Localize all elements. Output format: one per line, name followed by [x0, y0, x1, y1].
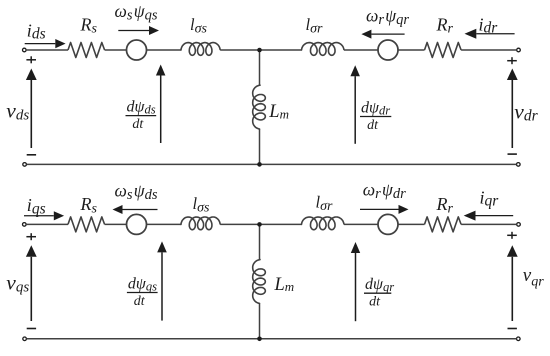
resistor Rr [425, 43, 462, 58]
terminal v_qr+ [517, 223, 521, 227]
current arrow i_ds [25, 43, 56, 45]
wire [26, 223, 68, 225]
voltage arrow v_dr [511, 80, 513, 148]
plus sign v_qs [26, 236, 36, 238]
terminal v_ds+ [23, 48, 27, 52]
wire [105, 49, 127, 51]
terminal v_qs+ [23, 223, 27, 227]
label dpsi_qs/dt [127, 292, 158, 294]
inductor l_sigma_r [302, 217, 344, 230]
current arrow i_dr [476, 33, 514, 35]
wire [259, 224, 261, 259]
arrow omega_r psi_dr emf [360, 208, 399, 210]
inductor Lm [253, 260, 266, 304]
junction bottom [257, 162, 262, 167]
plus sign v_qr [507, 234, 517, 236]
inductor l_sigma_s [181, 217, 220, 230]
arrow omega_s psi_ds emf [123, 209, 158, 211]
terminal v_dr+ [517, 48, 521, 52]
junction top [257, 48, 262, 53]
junction bottom [257, 337, 262, 342]
label dpsi_qr/dt [364, 292, 391, 294]
wire [259, 50, 261, 85]
voltage arrow v_qr [511, 257, 513, 321]
wire [147, 223, 182, 225]
minus sign v_ds [27, 154, 36, 156]
inductor l_sigma_r [302, 43, 344, 56]
wire [398, 223, 425, 225]
wire [105, 223, 127, 225]
wire [259, 303, 261, 338]
arrow omega_r psi_qr emf [371, 33, 404, 35]
svg-text:dt: dt [132, 117, 144, 132]
terminal v_qs- [23, 337, 27, 341]
source omega_r psi_qr emf [378, 40, 398, 60]
wire [147, 49, 182, 51]
label dpsi_dr/dt [360, 116, 391, 118]
terminal v_qr- [517, 337, 521, 341]
source omega_s psi_ds emf [127, 214, 147, 234]
wire [220, 223, 301, 225]
source omega_s psi_qs emf [127, 40, 147, 60]
label dpsi_ds/dt [126, 115, 157, 117]
wire bottom rail [27, 163, 517, 165]
resistor Rr [425, 217, 462, 232]
svg-text:dt: dt [369, 295, 381, 310]
plus sign v_dr [507, 60, 517, 62]
inductor Lm [253, 85, 266, 129]
current arrow i_qr [476, 215, 514, 217]
terminal v_ds- [23, 163, 27, 167]
plus sign v_ds [26, 59, 36, 61]
wire [344, 223, 378, 225]
svg-text:dt: dt [134, 294, 146, 309]
wire [461, 49, 517, 51]
minus sign v_qs [27, 328, 36, 330]
inductor l_sigma_s [181, 43, 220, 56]
wire [26, 49, 68, 51]
resistor Rs [68, 43, 105, 58]
wire [461, 223, 517, 225]
arrow dpsi_dr/dt [354, 76, 356, 144]
junction top [257, 222, 262, 227]
minus sign v_dr [508, 153, 517, 155]
source omega_r psi_dr emf [378, 214, 398, 234]
wire [259, 129, 261, 164]
arrow dpsi_ds/dt [160, 76, 162, 144]
arrow dpsi_qr/dt [355, 253, 357, 321]
resistor Rs [68, 217, 105, 232]
arrow omega_s psi_qs emf [118, 30, 149, 32]
wire [398, 49, 425, 51]
arrow dpsi_qs/dt [161, 252, 163, 320]
minus sign v_qr [508, 328, 517, 330]
voltage arrow v_qs [30, 257, 32, 321]
voltage arrow v_ds [30, 80, 32, 148]
terminal v_dr- [517, 163, 521, 167]
wire bottom rail [27, 338, 517, 340]
current arrow i_qs [24, 215, 54, 217]
wire [220, 49, 301, 51]
wire [344, 49, 378, 51]
svg-text:dt: dt [367, 118, 379, 133]
